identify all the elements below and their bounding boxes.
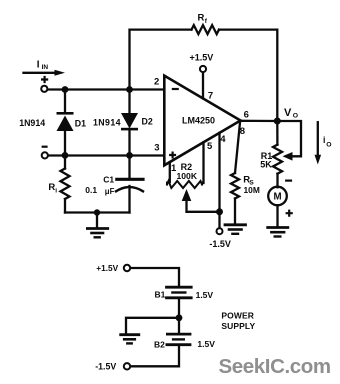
svg-text:M: M <box>273 192 281 203</box>
svg-text:B1: B1 <box>155 289 166 299</box>
svg-text:3: 3 <box>154 143 159 154</box>
svg-text:IN: IN <box>42 64 49 71</box>
svg-text:V: V <box>284 107 292 119</box>
svg-text:6: 6 <box>244 109 249 120</box>
svg-text:-1.5V: -1.5V <box>209 239 231 249</box>
svg-text:B2: B2 <box>154 339 165 349</box>
svg-text:1N914: 1N914 <box>19 118 45 128</box>
svg-text:μF: μF <box>105 187 115 196</box>
svg-text:0.1: 0.1 <box>85 185 97 195</box>
svg-text:+1.5V: +1.5V <box>190 53 214 63</box>
svg-text:10M: 10M <box>244 185 260 195</box>
svg-text:2: 2 <box>154 77 159 88</box>
svg-text:5: 5 <box>207 141 213 152</box>
svg-text:i: i <box>323 135 325 145</box>
svg-text:O: O <box>326 142 331 149</box>
svg-text:1.5V: 1.5V <box>197 339 215 349</box>
svg-text:D2: D2 <box>142 116 153 126</box>
svg-text:O: O <box>293 113 298 120</box>
svg-text:+1.5V: +1.5V <box>96 263 118 273</box>
svg-text:POWER: POWER <box>221 311 254 321</box>
svg-text:100K: 100K <box>177 171 198 181</box>
svg-text:R: R <box>198 13 205 24</box>
svg-text:D1: D1 <box>75 118 86 128</box>
svg-text:i: i <box>55 187 57 194</box>
svg-text:1.5V: 1.5V <box>196 290 214 300</box>
svg-text:7: 7 <box>208 91 213 102</box>
svg-text:1N914: 1N914 <box>93 117 121 127</box>
svg-text:SUPPLY: SUPPLY <box>221 321 255 331</box>
svg-text:-1.5V: -1.5V <box>95 361 116 371</box>
svg-text:SeekIC.com: SeekIC.com <box>219 355 331 378</box>
svg-text:LM4250: LM4250 <box>182 115 215 125</box>
svg-text:5K: 5K <box>260 159 272 169</box>
svg-text:C1: C1 <box>103 175 114 185</box>
svg-text:8: 8 <box>240 126 245 137</box>
svg-text:4: 4 <box>220 134 226 145</box>
svg-text:I: I <box>37 59 40 70</box>
